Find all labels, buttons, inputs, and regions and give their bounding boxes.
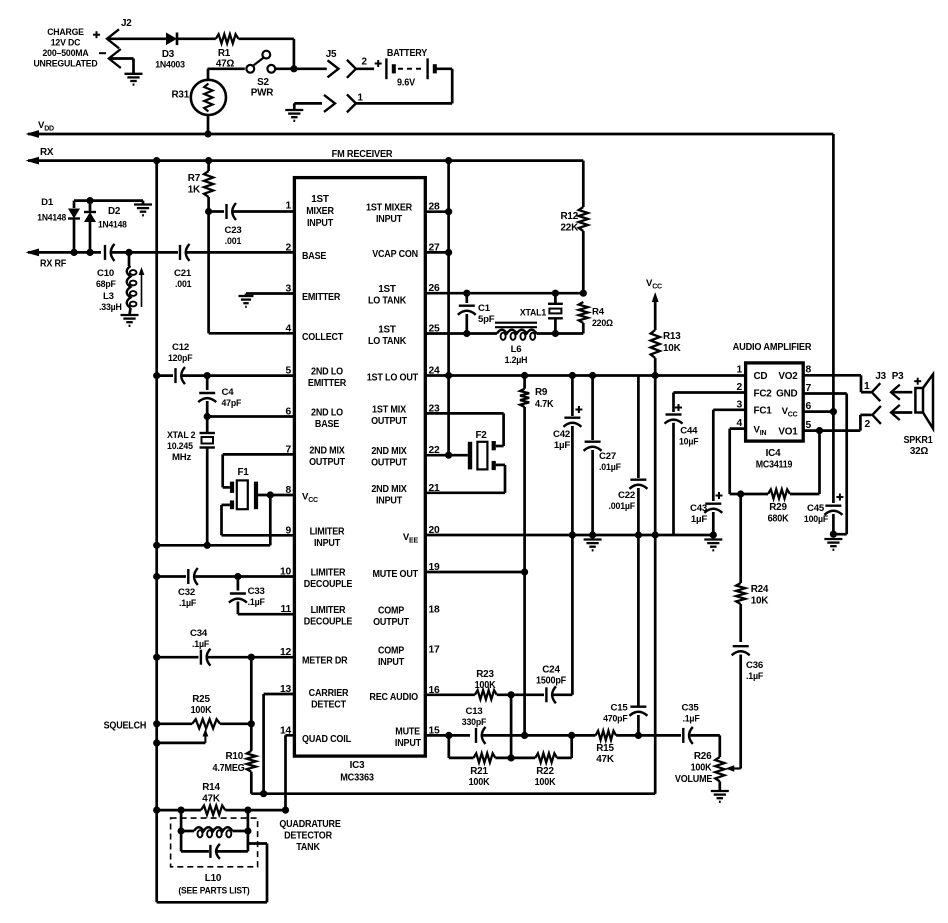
J3 pin1 label (864, 381, 870, 392)
resistor R14 47K (157, 806, 286, 815)
wire carrier detect row (251, 792, 655, 795)
resistor R12 22K (579, 207, 588, 293)
svg-text:VO1: VO1 (778, 426, 798, 437)
svg-text:C42: C42 (553, 429, 570, 440)
svg-text:1ST LO OUT: 1ST LO OUT (367, 373, 418, 384)
C42 label (553, 429, 570, 451)
svg-text:2: 2 (362, 57, 368, 68)
wire R22 up to pin15 (557, 735, 572, 758)
svg-text:10K: 10K (751, 596, 770, 607)
ground (D1 D2) (134, 201, 152, 216)
wire F2 to pin21 (425, 465, 505, 493)
wire pin24 row (425, 374, 745, 377)
wire pin15 row (425, 734, 470, 737)
resistor R15 47K (596, 731, 617, 740)
svg-text:17: 17 (429, 645, 441, 656)
svg-text:1ST: 1ST (311, 194, 329, 205)
wire R9 down to pin15 row (523, 572, 526, 735)
SPKR1 label (903, 435, 933, 457)
svg-text:2ND LO: 2ND LO (311, 408, 343, 419)
svg-text:9.6V: 9.6V (397, 78, 415, 89)
IC3 pin 24 number (429, 366, 441, 377)
node pin13-gnd row (260, 790, 267, 797)
R26 label (675, 751, 713, 785)
svg-text:MHz: MHz (172, 452, 192, 463)
J3 pin2 jack (872, 406, 881, 424)
svg-text:1ST MIX: 1ST MIX (372, 404, 406, 415)
connector J3 label (875, 371, 886, 382)
svg-text:200–500MA: 200–500MA (43, 48, 89, 59)
svg-text:C32: C32 (178, 587, 195, 598)
svg-text:C34: C34 (190, 628, 208, 639)
C45 label (804, 503, 828, 525)
IC3 pin 23 number (429, 403, 441, 414)
J5 plug 1 arrow (294, 95, 335, 112)
IC3 pin 14 number (280, 725, 292, 736)
IC3 pin6 label (311, 408, 343, 431)
IC4 VCC label (782, 406, 798, 419)
diode D1 1N4148 (68, 201, 80, 253)
svg-text:INPUT: INPUT (376, 214, 402, 225)
IC3 pin15 label (395, 726, 421, 749)
R14 label (202, 782, 221, 805)
Vcc label (646, 278, 662, 291)
svg-text:1ST MIXER: 1ST MIXER (366, 203, 412, 214)
svg-text:C22: C22 (618, 490, 635, 501)
IC3 pin11 label (304, 605, 353, 628)
svg-text:2ND MIX: 2ND MIX (371, 446, 407, 457)
IC3 pin28 label (366, 203, 412, 226)
svg-text:1500pF: 1500pF (536, 676, 566, 687)
svg-text:.001µF: .001µF (609, 501, 636, 512)
C34 label (190, 628, 209, 650)
C35 label (682, 703, 700, 725)
RX RF line (26, 249, 102, 257)
wire pin13 route (264, 694, 295, 794)
svg-text:F2: F2 (475, 430, 487, 441)
IC3 pin 19 number (429, 562, 441, 573)
wire pin25 row (425, 332, 583, 335)
R7 label (188, 173, 201, 196)
svg-text:INPUT: INPUT (307, 218, 333, 229)
svg-text:2ND MIX: 2ND MIX (371, 484, 407, 495)
IC4 VO2 label (778, 371, 798, 382)
svg-text:C33: C33 (248, 586, 265, 597)
svg-text:FC2: FC2 (754, 388, 773, 399)
node XTAL2-gnd line (204, 542, 211, 549)
node C1 top (463, 290, 470, 297)
svg-text:3: 3 (285, 284, 291, 295)
svg-text:MUTE: MUTE (395, 726, 420, 737)
svg-text:1µF: 1µF (691, 514, 707, 525)
svg-text:R15: R15 (596, 743, 614, 754)
IC3 pin 12 number (280, 647, 292, 658)
svg-text:.1µF: .1µF (248, 597, 265, 608)
node rail-C32 (153, 573, 160, 580)
wire pin2 route (674, 393, 746, 413)
IC3 pin2 label (302, 251, 327, 262)
svg-text:12V DC: 12V DC (51, 38, 81, 49)
ground (R26) (711, 791, 729, 802)
svg-text:L3: L3 (103, 291, 114, 302)
svg-text:LIMITER: LIMITER (311, 605, 346, 616)
node switch-battery junction (290, 65, 297, 72)
IC3 pin22 label (371, 446, 407, 469)
wire R21 branch (449, 735, 474, 758)
IC3 pin 26 number (429, 283, 441, 294)
wire mute out pin19 (425, 571, 524, 574)
wire C21 to pin2 (187, 251, 294, 254)
L6 label (505, 344, 528, 366)
svg-text:120pF: 120pF (168, 353, 193, 364)
wire D1-D2 top (74, 197, 143, 204)
J3 pin2 label (865, 419, 871, 430)
wire pin27 stub (425, 251, 448, 254)
resistor R4 220ohm (579, 302, 588, 334)
IC4 pin7 number (806, 383, 812, 394)
IC3 pin 13 number (280, 684, 292, 695)
svg-text:S2: S2 (257, 77, 269, 88)
svg-text:2: 2 (285, 242, 291, 253)
ground (emitter pin3) (239, 294, 295, 307)
capacitor C23 .001 (209, 203, 295, 220)
inductor L3 .33uH (127, 252, 137, 315)
D1 label (37, 197, 66, 223)
node pin15-R21 branch (445, 732, 452, 739)
wire battery loop (356, 69, 452, 104)
J5 jack 1 (347, 94, 356, 112)
svg-text:F1: F1 (237, 467, 249, 478)
node rail-pin24 (445, 372, 452, 379)
svg-text:R14: R14 (202, 782, 220, 793)
IC3 pin7 label (309, 445, 345, 468)
svg-text:PWR: PWR (251, 88, 274, 99)
battery BATTERY label (387, 48, 428, 59)
battery plus sign (375, 60, 382, 67)
svg-text:R26: R26 (694, 751, 712, 762)
R1 label (216, 48, 235, 70)
node rail-C34 (153, 654, 160, 661)
node RX-R7 (205, 157, 212, 164)
svg-text:1N4148: 1N4148 (37, 213, 66, 223)
C15 label (603, 703, 628, 725)
svg-text:100µF: 100µF (804, 514, 828, 525)
svg-text:C43: C43 (690, 503, 707, 514)
XTAL2 label (167, 430, 195, 463)
svg-text:32Ω: 32Ω (910, 446, 929, 457)
wire pin14 route (286, 735, 295, 810)
capacitor C44 10uF (665, 404, 683, 535)
volume pot R26 100K (715, 757, 724, 791)
node D1-RXRF (70, 249, 77, 256)
op-amp IC4 MC34119 box (746, 363, 804, 441)
svg-text:10µF: 10µF (679, 437, 699, 448)
wire J2+ to D3 (107, 37, 166, 40)
svg-text:INPUT: INPUT (314, 538, 340, 549)
capacitor C45 100uF (824, 412, 843, 534)
IC3 pin 1 number (285, 201, 291, 212)
IC3 pin14 label (302, 734, 351, 745)
node R9-pin15 row (521, 732, 528, 739)
svg-text:RX: RX (40, 147, 54, 158)
filter F2 (470, 441, 494, 470)
IC3 pin4 label (302, 332, 343, 343)
IC3 pin18 label (373, 606, 409, 629)
svg-text:R23: R23 (476, 669, 494, 680)
capacitor C13 330pF (476, 727, 486, 744)
resistor R21 100K (474, 753, 496, 762)
squelch pot R25 100K (157, 719, 252, 728)
IC3 pin 27 number (429, 242, 441, 253)
wire pin28 rail (447, 161, 450, 456)
C33 label (248, 586, 265, 608)
wire tank to bottom (157, 844, 267, 903)
wire R29 to pin5 (790, 431, 820, 494)
IC3 pin23 label (371, 404, 407, 427)
node C42 bottom (569, 531, 576, 538)
svg-text:BATTERY: BATTERY (387, 48, 428, 59)
wire pin8 row (803, 375, 871, 392)
svg-text:.1µF: .1µF (746, 671, 763, 682)
node L3 top (125, 249, 132, 256)
IC3 pin16 label (369, 692, 418, 703)
IC3 pin 7 number (285, 444, 291, 455)
capacitor C42 1uF (563, 376, 582, 536)
C22 label (609, 490, 636, 512)
IC4 pin8 number (806, 365, 812, 376)
svg-text:R12: R12 (560, 211, 578, 222)
AUDIO AMPLIFIER label (733, 342, 813, 353)
svg-text:R21: R21 (470, 766, 488, 777)
svg-text:SQUELCH: SQUELCH (104, 721, 147, 732)
L3 adjust arrow (139, 267, 145, 307)
IC3 pin 8 number (285, 485, 291, 496)
Vdd rail (26, 130, 834, 138)
svg-text:REC AUDIO: REC AUDIO (369, 692, 418, 703)
FM RECEIVER label (332, 149, 394, 160)
svg-text:100K: 100K (475, 680, 497, 691)
svg-text:C21: C21 (174, 268, 192, 279)
ground (L3) (121, 315, 139, 326)
IC3 pin24 label (367, 373, 418, 384)
svg-text:680K: 680K (768, 514, 790, 525)
node tank right top (244, 807, 251, 814)
IC3 pin 11 number (281, 604, 292, 615)
IC4 pin6 number (806, 401, 812, 412)
svg-text:DECOUPLE: DECOUPLE (304, 617, 353, 628)
svg-text:BASE: BASE (302, 251, 327, 262)
IC3 label (340, 760, 374, 784)
IC3 pin19 label (373, 569, 419, 580)
R22 label (535, 766, 557, 788)
R25 wiper arrow (157, 729, 209, 743)
resistor R29 680K (768, 489, 790, 498)
IC4 pin3 number (736, 399, 742, 410)
node C4 bottom (204, 413, 211, 420)
R23 label (475, 669, 497, 691)
R25 label (191, 694, 213, 716)
svg-text:XTAL 2: XTAL 2 (167, 430, 195, 441)
svg-text:.01µF: .01µF (599, 462, 621, 473)
C32 label (178, 587, 196, 609)
resistor R13 10K (651, 330, 660, 376)
capacitor C12 120pF (157, 367, 295, 384)
J5 pin2 label (362, 57, 368, 68)
node R24 tap (737, 490, 744, 497)
wire pin7 to F1 (223, 454, 295, 487)
IC3 pin10 label (304, 568, 353, 591)
svg-text:J3: J3 (875, 371, 886, 382)
capacitor C24 1500pF (546, 535, 572, 703)
node Vee-Vcc vert (652, 531, 659, 538)
svg-text:1µF: 1µF (554, 440, 570, 451)
node R31-Vdd (204, 130, 211, 137)
IC3 pin 4 number (285, 323, 291, 334)
svg-text:LIMITER: LIMITER (310, 526, 345, 537)
tank left leg (180, 810, 183, 851)
svg-text:AUDIO AMPLIFIER: AUDIO AMPLIFIER (733, 342, 813, 353)
svg-text:1: 1 (358, 93, 364, 104)
node R12-R4 (580, 290, 587, 297)
svg-text:8: 8 (806, 365, 812, 376)
Vdd label (38, 120, 54, 133)
svg-text:.001: .001 (225, 236, 242, 247)
node L10 right (244, 827, 251, 834)
J2 minus arrow (109, 49, 121, 68)
wire pin28 stub (425, 210, 448, 213)
Vcc arrow (652, 292, 659, 330)
svg-text:C10: C10 (97, 268, 114, 279)
svg-text:C44: C44 (680, 426, 698, 437)
wire pin5 row (803, 429, 860, 432)
node Vdd-pin6 (830, 408, 837, 415)
wire R24 branch (739, 494, 742, 583)
svg-text:1: 1 (736, 365, 742, 376)
svg-text:470pF: 470pF (603, 714, 628, 725)
wire R1 to corner (238, 39, 294, 68)
wire pin16 row (425, 693, 475, 696)
inductor L10 coil (181, 827, 248, 837)
C12 label (168, 342, 193, 364)
svg-text:4.7MEG: 4.7MEG (213, 763, 245, 774)
node R25-R10 (248, 720, 255, 727)
wire Vee row pin20 (425, 534, 713, 537)
svg-text:MC34119: MC34119 (756, 460, 793, 471)
svg-text:C12: C12 (172, 342, 189, 353)
svg-text:VO2: VO2 (778, 371, 798, 382)
IC3 pin 21 number (429, 483, 441, 494)
node XTAL1 bottom (552, 330, 559, 337)
svg-text:UNREGULATED: UNREGULATED (33, 59, 97, 70)
svg-text:.001: .001 (175, 279, 192, 290)
node rail end pin22 (445, 452, 452, 459)
C13 label (462, 706, 487, 728)
IC3 pin 9 number (285, 525, 291, 536)
svg-text:1K: 1K (188, 185, 201, 196)
J5 plug 2 arrow (294, 60, 339, 77)
node L10 left (178, 827, 185, 834)
node rail-R14 (153, 807, 160, 814)
wire pin26 row (425, 292, 583, 295)
speaker SPKR1 (915, 374, 933, 428)
IC4 FC1 label (754, 406, 773, 417)
IC3 pin8 label (302, 492, 318, 505)
node D2-RXRF (86, 249, 93, 256)
svg-text:.1µF: .1µF (179, 598, 196, 609)
svg-text:LO TANK: LO TANK (368, 336, 407, 347)
svg-text:RX RF: RX RF (40, 259, 66, 270)
svg-text:4.7K: 4.7K (535, 399, 554, 410)
F2 label (475, 430, 487, 441)
quadrature tank box (dashed) (171, 818, 258, 867)
C10 label (96, 268, 116, 290)
svg-text:L6: L6 (511, 344, 522, 355)
wire F1 to pin8 (258, 494, 294, 497)
ground (C27) (584, 540, 602, 551)
node C42 top (569, 372, 576, 379)
node C34-R10 branch (248, 654, 255, 661)
node RX-pin28 rail (445, 157, 452, 164)
svg-text:DETECTOR: DETECTOR (284, 831, 332, 842)
P3 pin2 plug (891, 405, 912, 420)
IC4 pin1 number (736, 365, 742, 376)
svg-text:LO TANK: LO TANK (368, 296, 407, 307)
J2 plus sign (93, 31, 100, 38)
capacitor C27 .01uF (584, 376, 602, 536)
wire pin22 to F2 (425, 454, 468, 457)
svg-text:D3: D3 (162, 49, 175, 60)
node C45 gnd (830, 531, 837, 538)
IC3 pin 22 number (429, 445, 441, 456)
P3 pin1 plug (891, 385, 912, 400)
svg-text:330pF: 330pF (462, 717, 487, 728)
svg-text:J2: J2 (121, 18, 132, 29)
node pin14-R14 (282, 807, 289, 814)
svg-text:EMITTER: EMITTER (302, 292, 340, 303)
svg-text:1N4148: 1N4148 (98, 220, 127, 230)
svg-text:.33µH: .33µH (99, 302, 122, 313)
svg-text:D2: D2 (108, 206, 121, 217)
svg-text:R9: R9 (535, 387, 548, 398)
XTAL1 label (520, 308, 547, 319)
svg-text:C27: C27 (599, 451, 616, 462)
svg-text:EMITTER: EMITTER (308, 378, 346, 389)
wire pin5 to jack2 (860, 415, 871, 431)
C27 label (599, 451, 621, 473)
wire C13 to R15 (483, 734, 596, 737)
wire F1 gnd branch (157, 495, 271, 545)
capacitor C35 .1uF (683, 727, 720, 744)
IC3 pin 25 number (429, 324, 441, 335)
svg-text:INPUT: INPUT (395, 738, 421, 749)
svg-text:100K: 100K (691, 763, 713, 774)
connector J5 label (326, 49, 337, 60)
svg-text:1N4003: 1N4003 (155, 60, 185, 71)
C23 label (225, 225, 242, 247)
capacitor C4 47pF (198, 376, 216, 417)
capacitor C36 .1uF (732, 646, 750, 768)
svg-text:INPUT: INPUT (376, 495, 402, 506)
wire pin12 branch down (250, 657, 253, 724)
svg-text:SPKR1: SPKR1 (903, 435, 933, 446)
svg-text:2ND LO: 2ND LO (311, 367, 343, 378)
svg-text:R10: R10 (225, 751, 243, 762)
node C4 top (204, 372, 211, 379)
node R9-mute out (521, 568, 528, 575)
left ground rail (155, 161, 158, 903)
node C33 top (234, 573, 241, 580)
IC3 pin 2 number (285, 242, 291, 253)
